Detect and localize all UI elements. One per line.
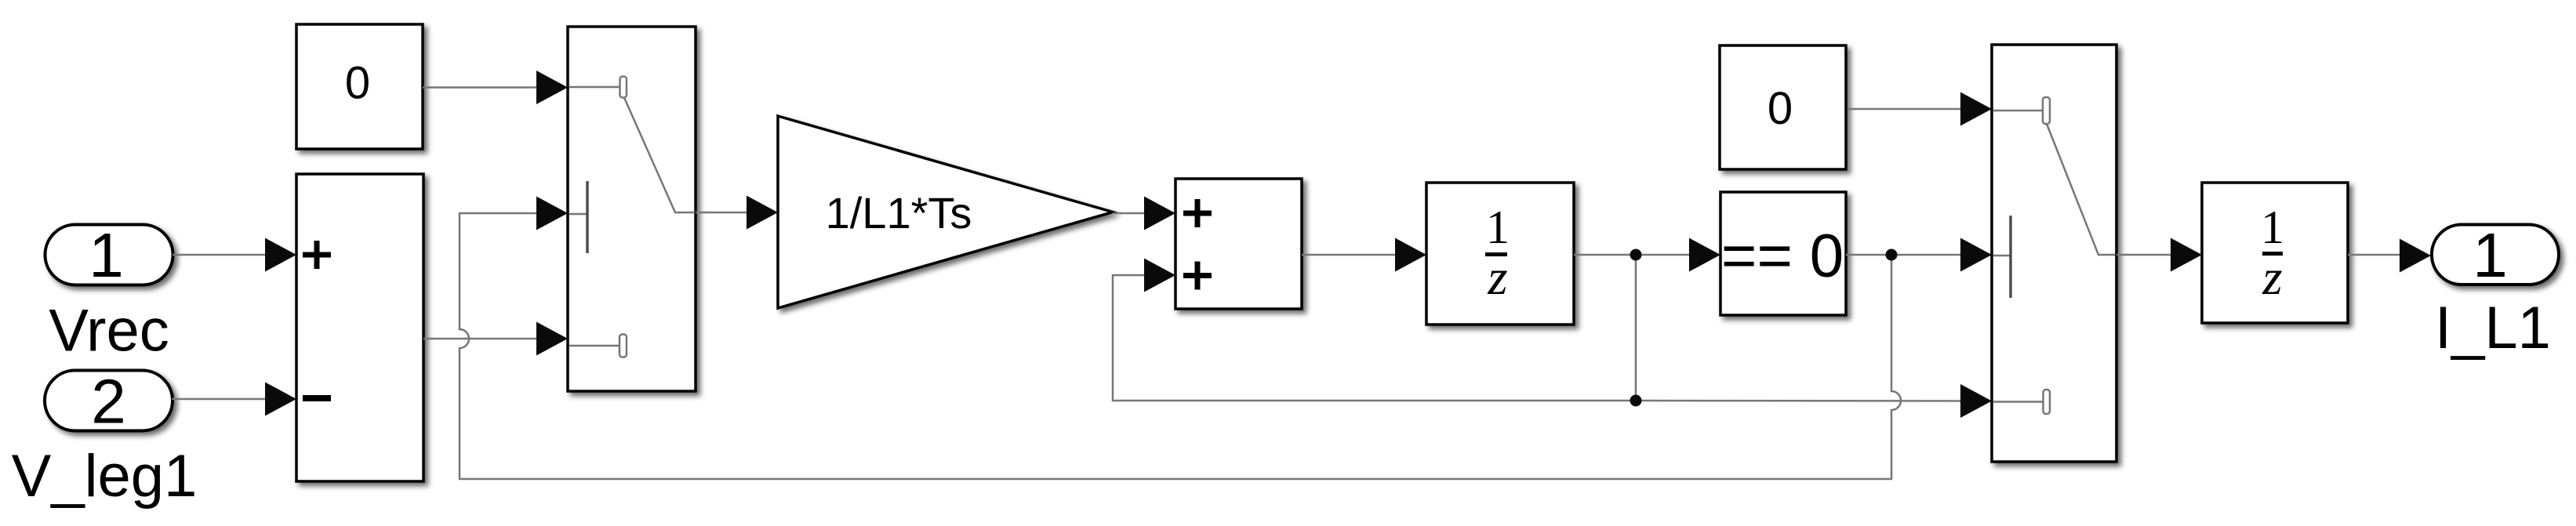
switch block SW2	[1992, 45, 2116, 462]
svg-text:== 0: == 0	[1721, 221, 1844, 290]
sum block S1	[296, 174, 423, 481]
svg-text:0: 0	[1768, 83, 1793, 134]
switch SW1 port line 1	[569, 86, 620, 89]
wire inport1 to sum S1 plus	[173, 254, 267, 256]
switch SW1 selector arm	[624, 98, 695, 213]
wire switch SW1 output to gain G1	[696, 212, 748, 214]
svg-text:z: z	[2262, 249, 2282, 306]
svg-text:I_L1: I_L1	[2435, 295, 2551, 361]
svg-text:1: 1	[89, 220, 124, 290]
compare block CMP (== 0)	[1720, 192, 1846, 315]
svg-text:1: 1	[2472, 220, 2508, 290]
switch SW2 selector arm	[2047, 124, 2115, 255]
svg-text:0: 0	[345, 58, 370, 109]
plus sign 1 of sum S2	[1183, 211, 1212, 216]
junction node A2	[1630, 395, 1642, 407]
wire constant C2 to switch SW2 input 1	[1848, 108, 1962, 111]
switch SW1 pill 1	[620, 77, 627, 98]
switch SW2 port line 1	[1993, 110, 2043, 112]
inport 1 (Vrec)	[45, 225, 173, 285]
wire sum S2 output to delay D1	[1302, 254, 1397, 256]
wire delay D1 output to compare CMP input	[1574, 254, 1691, 256]
switch block SW1	[568, 27, 696, 391]
wire sum S1 output to switch SW1 input 3	[423, 338, 538, 340]
unit delay block D1 (1/z)	[1426, 183, 1574, 325]
svg-text:Vrec: Vrec	[49, 298, 169, 365]
feedback wire from node B down-left-up to switch SW1 input 2 (hops over sum output wire)	[460, 213, 1901, 479]
svg-text:2: 2	[91, 367, 126, 437]
svg-text:1: 1	[1486, 201, 1510, 253]
wire delay D2 output to outport	[2348, 254, 2401, 256]
gain block G1 (1/L1*Ts)	[778, 116, 1113, 308]
switch SW2 pill 1	[2043, 97, 2050, 124]
outport 1 (I_L1)	[2432, 225, 2559, 285]
wire switch SW2 output to delay D2	[2116, 254, 2172, 256]
junction node A	[1630, 249, 1642, 261]
constant block C2 value 0	[1720, 45, 1846, 169]
sum block S2	[1175, 179, 1302, 309]
switch SW2 port line 3	[1993, 401, 2044, 403]
wire from node A2 right to switch SW2 input 3	[1636, 400, 1962, 402]
svg-text:z: z	[1487, 249, 1507, 306]
switch SW1 pill 3	[619, 335, 627, 357]
svg-text:1: 1	[2261, 201, 2284, 253]
plus sign 2 of sum S2	[1183, 273, 1212, 278]
wire gain G1 to sum S2 input 1	[1113, 212, 1146, 215]
switch SW1 port line 2	[569, 213, 587, 216]
constant block C1 value 0	[296, 24, 423, 149]
svg-text:V_leg1: V_leg1	[12, 443, 198, 510]
switch SW1 port line 3	[569, 345, 619, 347]
switch SW2 pill 3	[2044, 390, 2051, 414]
switch SW1 threshold bar	[586, 181, 589, 253]
branch wire down from node A	[1635, 255, 1637, 401]
junction node B	[1886, 249, 1898, 261]
minus sign of sum S1	[303, 395, 331, 401]
svg-text:1/L1*Ts: 1/L1*Ts	[826, 188, 972, 238]
wire from node A2 left and up to sum S2 input 2	[1113, 275, 1636, 401]
unit delay block D2 (1/z)	[2202, 183, 2348, 323]
wire compare CMP output to switch SW2 input 2	[1846, 254, 1962, 256]
wire inport2 to sum S1 minus	[172, 398, 267, 401]
switch SW2 threshold bar	[2009, 216, 2012, 298]
plus sign of sum S1	[303, 252, 331, 258]
switch SW2 port line 2	[1993, 255, 2010, 257]
inport 2 (V_leg1)	[45, 371, 173, 431]
wire constant C1 to switch SW1 input 1	[423, 86, 538, 89]
